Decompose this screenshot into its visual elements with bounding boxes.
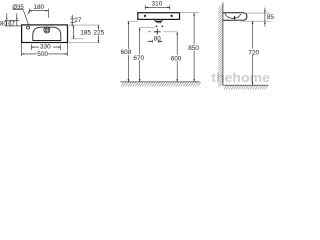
svg-text:67: 67 bbox=[8, 21, 15, 27]
svg-text:500: 500 bbox=[37, 51, 48, 58]
svg-text:180: 180 bbox=[33, 4, 44, 11]
dim 85 bbox=[264, 8, 266, 27]
svg-text:310: 310 bbox=[152, 1, 163, 8]
below-bar dots bbox=[156, 25, 158, 27]
dim 80 bbox=[147, 40, 162, 43]
mounting holes bbox=[144, 14, 147, 17]
floor hatch right bbox=[224, 85, 268, 89]
svg-text:608: 608 bbox=[121, 49, 132, 56]
inner bowl bbox=[225, 14, 241, 19]
left dims arrows bbox=[6, 18, 17, 21]
dim 180 arrows bbox=[29, 10, 48, 12]
dim 850 line bbox=[193, 13, 195, 82]
left dims rules bbox=[5, 13, 22, 26]
bar outline bbox=[138, 13, 180, 20]
svg-text:850: 850 bbox=[188, 45, 199, 52]
dim 500 bbox=[22, 43, 68, 57]
basin profile bbox=[223, 13, 247, 20]
svg-text:225: 225 bbox=[93, 29, 104, 36]
dim 608 line bbox=[127, 21, 129, 81]
svg-text:720: 720 bbox=[248, 49, 259, 56]
dim 225 line bbox=[97, 25, 99, 43]
svg-text:185: 185 bbox=[80, 29, 91, 36]
drain crosshair bbox=[154, 29, 161, 35]
ext to 670 bbox=[140, 27, 155, 29]
dim 185 line bbox=[73, 25, 75, 39]
drain notch bbox=[154, 19, 163, 21]
svg-text:85: 85 bbox=[267, 14, 275, 21]
basin outline rect bbox=[22, 25, 68, 43]
svg-text:330: 330 bbox=[40, 44, 51, 51]
faucet hole bbox=[27, 26, 30, 29]
dim 27 bbox=[70, 15, 74, 27]
svg-text:27: 27 bbox=[74, 17, 82, 24]
dim 720 line bbox=[252, 21, 254, 85]
dim 670 line bbox=[139, 28, 141, 82]
svg-text:80: 80 bbox=[154, 35, 161, 42]
drain arrow bbox=[234, 16, 236, 18]
85 ext lines bbox=[241, 13, 271, 21]
dim 330 bbox=[31, 44, 60, 50]
dim 180 line bbox=[28, 9, 49, 18]
svg-text:600: 600 bbox=[171, 56, 182, 63]
dim 600 line bbox=[176, 32, 178, 82]
wall line bbox=[222, 3, 224, 86]
dim 310 bbox=[145, 5, 170, 10]
floor line right bbox=[223, 84, 268, 86]
ext bar bottom left bbox=[127, 20, 138, 22]
drain hatch bbox=[44, 27, 50, 33]
wall hatch bbox=[218, 5, 223, 87]
floor hatch bbox=[121, 82, 201, 86]
floor line bbox=[120, 81, 199, 83]
svg-text:670: 670 bbox=[133, 55, 144, 62]
label O35 leader bbox=[13, 10, 29, 26]
drain circle bbox=[44, 27, 50, 33]
svg-text:Ø35: Ø35 bbox=[12, 5, 24, 11]
svg-text:80: 80 bbox=[0, 21, 7, 27]
right ext lines bbox=[69, 24, 100, 26]
ext bar top right bbox=[180, 12, 199, 14]
ext to 600 bbox=[163, 31, 177, 33]
bowl dome bbox=[33, 27, 61, 40]
